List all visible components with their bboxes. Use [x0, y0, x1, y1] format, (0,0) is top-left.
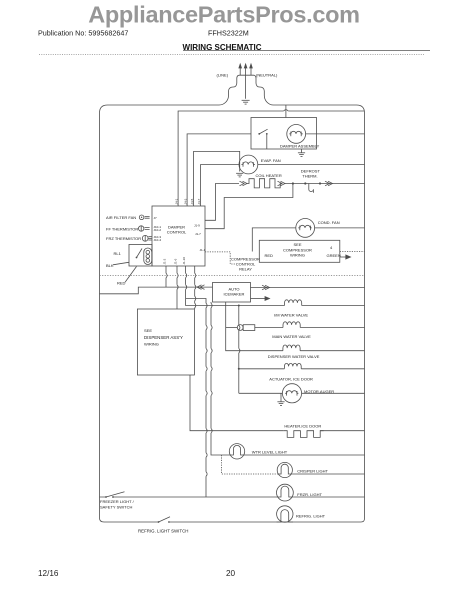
svg-text:CRISPER LIGHT: CRISPER LIGHT [297, 469, 328, 474]
lamp crisper light [277, 462, 292, 477]
svg-text:J4-5: J4-5 [190, 198, 194, 204]
wire cond fan to right rail [315, 227, 365, 229]
switch in damper assembly [258, 129, 267, 149]
relay RL1 box [129, 245, 152, 267]
connector arrows heater right [278, 181, 286, 186]
svg-text:REFRIG. LIGHT SWITCH: REFRIG. LIGHT SWITCH [138, 529, 188, 534]
wire crisper light to right rail [292, 473, 364, 475]
wire defrost heater line from J1-9 [205, 184, 239, 221]
wire board pin drop x177 [176, 266, 178, 309]
wire freezer light row [100, 496, 277, 498]
svg-text:J1-7: J1-7 [195, 232, 201, 236]
switch freezer safety [105, 492, 124, 498]
svg-text:J1-9: J1-9 [194, 223, 200, 227]
svg-text:(NEUTRAL): (NEUTRAL) [256, 73, 278, 78]
svg-text:SEE: SEE [144, 328, 152, 333]
svg-text:J7: J7 [154, 216, 158, 220]
connector arrows icemaker left [197, 285, 205, 290]
junction dot right of defrost thermostat [319, 182, 321, 184]
wire junction drop to J1-7 path [205, 184, 293, 229]
damper assembly box [251, 118, 317, 150]
wire water valve 1 to right rail [302, 305, 365, 307]
wire BLK leader [113, 262, 129, 265]
svg-text:J1-1: J1-1 [200, 248, 206, 252]
wire cond fan feed [252, 228, 295, 252]
wire water valve 2 branch [226, 327, 238, 329]
power plug prong LINE [239, 64, 242, 75]
lamp wtr level light [229, 444, 244, 459]
relay RL1 switch [136, 249, 142, 259]
svg-text:J1-6: J1-6 [174, 258, 178, 264]
lamp freezer light [277, 484, 294, 501]
ground symbol auger motor [277, 393, 284, 405]
junction dot left of defrost thermostat [304, 182, 306, 184]
lamp refrig light on bottom rail [277, 506, 293, 522]
wire auger motor branch [239, 392, 282, 394]
svg-text:RED: RED [265, 253, 274, 258]
water valve MAIN coil [283, 322, 300, 328]
wire dispenser box bottom to ice door heater [190, 375, 284, 431]
svg-text:FREEZER LIGHT /: FREEZER LIGHT / [100, 499, 135, 504]
wire J4 pin1 riser to right rail [178, 111, 364, 206]
connector double-bars FF thermistor [145, 228, 150, 230]
svg-text:J10-4: J10-4 [154, 238, 162, 242]
wire J4 pin3 riser to evap fan ground leg [194, 151, 240, 206]
svg-text:WIRING: WIRING [144, 342, 159, 347]
wire left rail to auto icemaker [100, 287, 213, 294]
compressor wiring box [259, 240, 340, 262]
svg-text:THERM.: THERM. [302, 174, 317, 179]
wire water valve 2 to right rail [300, 327, 364, 329]
wire J4 pin2 riser to damper switch [187, 134, 251, 206]
ground symbol evap fan [236, 173, 243, 177]
wire neutral rail drop to damper assembly [285, 105, 287, 118]
wire freezer light to right rail [293, 496, 364, 498]
ground symbol damper assembly [298, 149, 305, 156]
connector circle air filter fan [139, 215, 144, 220]
relay RL1 coil capsule [144, 248, 152, 265]
connector arrows defrost right [325, 181, 333, 186]
svg-text:DAMPER ASSEMBLY: DAMPER ASSEMBLY [280, 144, 320, 149]
svg-text:REFRIG. LIGHT: REFRIG. LIGHT [296, 513, 326, 518]
wire ice door heater to right rail [320, 430, 365, 432]
svg-text:J4-3: J4-3 [184, 198, 188, 204]
wire dotted jog to crisper [222, 455, 278, 474]
svg-text:DISPENSER ASS'Y: DISPENSER ASS'Y [144, 335, 183, 340]
svg-text:ACTUATOR, ICE DOOR: ACTUATOR, ICE DOOR [269, 377, 313, 382]
water valve I/M coil [285, 300, 302, 306]
wire board pin drop x185.6 to water valve 1 [186, 266, 285, 306]
wire RED leader [125, 267, 137, 283]
actuator ice door coil [284, 363, 301, 368]
arrow compressor box exit [340, 255, 351, 259]
connector double-bars air filter fan [145, 216, 150, 218]
svg-text:J1-10: J1-10 [182, 257, 186, 265]
svg-text:FF THERMISTOR: FF THERMISTOR [106, 227, 138, 232]
ground symbol below plug [242, 100, 250, 104]
wire actuator to right rail [301, 368, 364, 370]
wire dotted compressor box to right rail [340, 251, 365, 253]
svg-text:SAFETY SWITCH: SAFETY SWITCH [100, 505, 132, 510]
connector circle FRZ thermistor [142, 235, 152, 241]
svg-text:WIRING: WIRING [290, 253, 305, 258]
motor evap fan [239, 155, 258, 174]
svg-text:ICEMAKER: ICEMAKER [224, 292, 245, 297]
svg-text:RED: RED [117, 281, 126, 286]
svg-text:HEATER,ICE DOOR: HEATER,ICE DOOR [284, 424, 321, 429]
wire bus 238.8 from valve1 line down [238, 306, 240, 394]
auto icemaker box [213, 283, 251, 303]
svg-text:EVAP. FAN: EVAP. FAN [261, 158, 281, 163]
heater coil element (defrost coil heater) [247, 179, 282, 188]
wire board pin J1-2 drop to icemaker line [165, 266, 167, 287]
title underline solid [183, 50, 430, 52]
wire icemaker bottom bus 225.7 [226, 302, 283, 351]
svg-text:FRZR. LIGHT: FRZR. LIGHT [297, 492, 322, 497]
wire heater to defrost thermostat [285, 183, 365, 185]
defrost thermostat hook [309, 184, 314, 193]
heater ice door element [284, 431, 324, 438]
wire outer boundary left+top with plug gap [100, 75, 365, 514]
svg-text:Publication No: 5995682647: Publication No: 5995682647 [38, 29, 128, 38]
svg-text:RL1: RL1 [114, 251, 122, 256]
svg-text:I/M WATER VALVE: I/M WATER VALVE [274, 313, 308, 318]
svg-text:CONTROL: CONTROL [167, 230, 187, 235]
svg-text:COIL HEATER: COIL HEATER [256, 173, 282, 178]
wire J4 pin4 riser to evap fan line [201, 165, 239, 207]
svg-text:J4-7: J4-7 [197, 198, 201, 204]
svg-text:MAIN WATER VALVE: MAIN WATER VALVE [272, 334, 311, 339]
wire damper motor to right rail [306, 133, 365, 135]
motor auger [282, 384, 301, 403]
wire evap fan to right rail [258, 164, 365, 166]
control board main box (damper control) [152, 206, 205, 266]
motor M damper [287, 124, 306, 143]
svg-text:FFHS2322M: FFHS2322M [208, 29, 249, 38]
wire icemaker to right rail [251, 287, 365, 289]
wire J1-1 dotted to compressor relay [205, 252, 236, 264]
power plug prong NEUTRAL [250, 64, 253, 75]
connector arrows heater left [240, 181, 248, 186]
motor cond fan [296, 219, 315, 238]
svg-text:J4-1: J4-1 [175, 198, 179, 204]
svg-text:RELAY: RELAY [239, 267, 252, 272]
water valve DISPENSER coil [283, 345, 300, 351]
svg-text:MOTOR,AUGER: MOTOR,AUGER [304, 389, 334, 394]
wire wtr level light to right rail [245, 454, 365, 456]
svg-text:J10-2: J10-2 [154, 228, 162, 232]
wire outer boundary bottom [100, 113, 365, 522]
header dotted rule [39, 54, 424, 56]
wire auger to right rail [302, 392, 365, 394]
wire board pin drop x194.7 to dispenser box [194, 266, 196, 309]
wire water valve 3 to right rail [300, 350, 364, 352]
svg-text:(LINE): (LINE) [217, 73, 229, 78]
arrow icemaker aux [251, 297, 270, 301]
dispenser assy wiring box [137, 309, 194, 375]
switch refrig light on bottom rail [158, 517, 170, 523]
svg-text:FRZ THERMISTOR: FRZ THERMISTOR [106, 236, 141, 241]
svg-text:DISPENSER WATER VALVE: DISPENSER WATER VALVE [268, 354, 320, 359]
svg-text:BLK: BLK [106, 263, 114, 268]
svg-text:AppliancePartsPros.com: AppliancePartsPros.com [88, 2, 360, 28]
svg-text:12/16: 12/16 [38, 569, 59, 578]
wire actuator ice door branch [239, 368, 285, 370]
connector circle FF thermistor [139, 226, 144, 231]
svg-text:WTR LEVEL LIGHT: WTR LEVEL LIGHT [252, 449, 288, 454]
svg-text:AIR FILTER FAN: AIR FILTER FAN [106, 215, 136, 220]
power plug prong ground (center) [244, 64, 247, 99]
wire jog from pin x185.6 to bus 206 [186, 299, 206, 498]
svg-text:J1-2: J1-2 [163, 258, 167, 264]
fuse capsule on valve2 line [237, 325, 283, 331]
connector arrows icemaker right [262, 285, 270, 290]
svg-text:GREEN: GREEN [327, 253, 341, 258]
svg-text:20: 20 [226, 569, 236, 578]
wire dotted horizontal divider [100, 275, 365, 277]
svg-text:COND. FAN: COND. FAN [318, 220, 340, 225]
wire bus 211 from icemaker box bottom [211, 302, 230, 455]
